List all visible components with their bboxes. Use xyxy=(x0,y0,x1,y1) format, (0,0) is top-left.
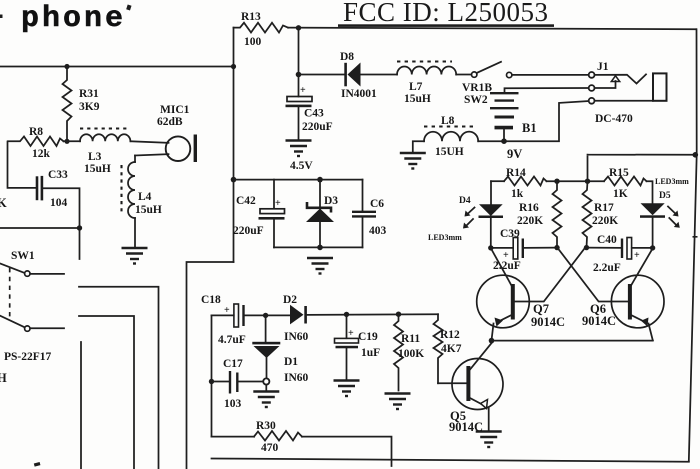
svg-text:LED3mm: LED3mm xyxy=(655,177,689,186)
wire cable bracket 2 xyxy=(79,316,134,469)
LED D4 xyxy=(428,181,503,248)
svg-text:D1: D1 xyxy=(284,356,298,368)
wire emitter bus xyxy=(492,340,653,342)
wire D1 to ground xyxy=(265,385,267,391)
LED D5 xyxy=(640,177,689,248)
svg-text:100: 100 xyxy=(244,36,262,48)
node right rail xyxy=(693,152,699,158)
wire SW2 to J1 xyxy=(512,74,589,76)
capacitor C19 xyxy=(335,314,381,379)
wire L4 to ground xyxy=(134,218,136,247)
stray mark bottom left xyxy=(34,462,41,467)
svg-text:L8: L8 xyxy=(441,115,455,127)
capacitor C33 xyxy=(37,169,68,209)
resistor R11 xyxy=(394,314,424,390)
capacitor C42 xyxy=(233,180,285,248)
svg-text:SW1: SW1 xyxy=(11,250,35,262)
wire D2 output row xyxy=(307,313,438,316)
svg-text:15uH: 15uH xyxy=(135,204,162,216)
svg-text:1K: 1K xyxy=(613,188,628,200)
resistor R8 xyxy=(8,126,64,160)
wire 9V feed right rail to oscillator xyxy=(588,155,697,182)
resistor R15 xyxy=(604,167,653,203)
wire cross coupling to Q6 base xyxy=(558,249,628,302)
svg-text:104: 104 xyxy=(50,197,68,209)
svg-text:VR1B: VR1B xyxy=(462,82,492,94)
node B1 minus xyxy=(501,138,507,144)
diode D8 IN4001 xyxy=(340,51,377,100)
inductor L8 xyxy=(424,115,478,158)
node C17 left junction xyxy=(209,379,214,384)
node C42 box top-left xyxy=(231,177,237,183)
ground below C19 xyxy=(334,381,360,397)
diode D2 IN60 xyxy=(266,294,309,343)
switch SW1 pole 2 xyxy=(0,316,64,385)
svg-text:2.2uF: 2.2uF xyxy=(493,260,521,272)
wire L8 to ground xyxy=(413,141,424,152)
node D1 bottom open circle xyxy=(263,378,269,384)
battery B1 xyxy=(490,93,537,161)
svg-text:IN60: IN60 xyxy=(284,372,309,384)
svg-text:D2: D2 xyxy=(283,294,297,306)
wire lower-left horizontal xyxy=(0,227,80,229)
wire lower block left vertical xyxy=(211,315,213,436)
microphone MIC1 xyxy=(130,104,197,162)
svg-text:15UH: 15UH xyxy=(435,146,464,158)
svg-text:R16: R16 xyxy=(519,202,539,214)
node C42 rail junction xyxy=(231,64,236,69)
node C40 left xyxy=(584,245,589,250)
svg-text:C42: C42 xyxy=(236,195,256,207)
inductor L3 xyxy=(80,129,130,176)
svg-text:9014C: 9014C xyxy=(531,315,565,329)
capacitor C6 xyxy=(352,180,387,248)
svg-text:C33: C33 xyxy=(48,169,68,181)
svg-text:C43: C43 xyxy=(304,108,324,120)
svg-text:470: 470 xyxy=(261,442,279,454)
svg-text:L4: L4 xyxy=(138,191,152,203)
svg-text:R17: R17 xyxy=(594,202,614,214)
svg-text:+: + xyxy=(348,328,354,339)
capacitor C40 xyxy=(587,234,653,274)
wire battery plus to J1 middle xyxy=(505,88,589,92)
svg-text:220uF: 220uF xyxy=(233,225,264,237)
wire C42 box to bottom left vertical xyxy=(187,262,234,469)
wire cable bracket 1 xyxy=(79,287,159,469)
wire R8 left drop xyxy=(8,142,36,188)
wire cross coupling to Q7 base xyxy=(515,249,585,302)
wire C33 to lower bus xyxy=(43,188,79,259)
wire D8 to L7 xyxy=(361,74,398,76)
svg-text:3K9: 3K9 xyxy=(79,101,100,113)
ground below R11 xyxy=(385,394,411,410)
stray mark right rail xyxy=(693,236,698,238)
transistor Q5 9014C xyxy=(449,343,503,435)
wire C43 drop xyxy=(298,28,300,97)
wire right vertical rail xyxy=(689,29,697,461)
switch SW2 VR1B xyxy=(456,62,512,106)
svg-text:L3: L3 xyxy=(88,151,102,163)
svg-text:R30: R30 xyxy=(256,420,276,432)
node C40 right xyxy=(650,245,655,250)
svg-text:H: H xyxy=(0,371,7,385)
svg-text:R11: R11 xyxy=(401,333,420,345)
svg-text:D3: D3 xyxy=(324,195,338,207)
svg-text:SW2: SW2 xyxy=(464,94,488,106)
svg-text:C6: C6 xyxy=(370,198,384,210)
svg-text:R8: R8 xyxy=(29,126,43,138)
title text FCC ID xyxy=(338,0,554,27)
svg-text:C39: C39 xyxy=(500,228,520,240)
resistor R16 xyxy=(517,181,562,247)
svg-text:FCC ID: L250053: FCC ID: L250053 xyxy=(343,0,549,27)
ground below L4 xyxy=(122,248,148,264)
wire B1 minus to L8 and up to J1 sleeve xyxy=(478,101,588,141)
resistor R14 xyxy=(491,167,604,200)
node R13 out xyxy=(296,25,301,30)
capacitor C43 xyxy=(286,85,333,172)
node C18 D1 junction xyxy=(263,313,268,318)
svg-text:L7: L7 xyxy=(409,81,423,93)
svg-text:+: + xyxy=(224,305,230,316)
svg-text:+: + xyxy=(300,85,306,96)
svg-text:100K: 100K xyxy=(398,348,424,360)
svg-text:62dB: 62dB xyxy=(157,116,183,128)
wire cable bracket 3 xyxy=(80,342,82,469)
svg-text:DC-470: DC-470 xyxy=(595,113,633,125)
svg-text:15uH: 15uH xyxy=(84,163,111,175)
resistor R17 xyxy=(583,181,619,247)
node D8 junction xyxy=(296,72,302,78)
node left rail junction xyxy=(64,64,69,69)
node D3 bottom xyxy=(317,245,323,251)
node C39 right xyxy=(554,245,559,250)
resistor R31 xyxy=(63,67,100,142)
svg-text:R12: R12 xyxy=(440,329,460,341)
zener diode D3 xyxy=(306,180,338,248)
svg-text:C17: C17 xyxy=(223,358,243,370)
resistor R13 xyxy=(234,11,289,48)
node R11 top xyxy=(396,312,401,317)
wire R13 leg / C42 feed vertical xyxy=(233,28,235,262)
node emitter bus xyxy=(489,338,495,344)
svg-text:K: K xyxy=(0,196,7,210)
svg-text:R15: R15 xyxy=(609,167,629,179)
switch SW1 linkage dashed xyxy=(9,268,11,318)
capacitor C39 xyxy=(491,228,557,272)
ground below C43 xyxy=(286,141,312,157)
inductor L4 xyxy=(122,156,162,219)
title text "phone" xyxy=(0,2,132,36)
svg-text:LED3mm: LED3mm xyxy=(428,233,462,242)
svg-text:D4: D4 xyxy=(459,196,471,206)
switch SW1 pole 1 xyxy=(0,250,64,276)
svg-text:220K: 220K xyxy=(517,215,543,227)
capacitor C17 xyxy=(212,358,264,410)
resistor R30 xyxy=(212,420,392,466)
svg-text:IN4001: IN4001 xyxy=(341,88,377,100)
svg-text:C18: C18 xyxy=(201,294,221,306)
svg-text:D8: D8 xyxy=(340,51,354,63)
node D3 top xyxy=(317,177,323,183)
ground below Q5 xyxy=(476,432,502,448)
node R31 bottom xyxy=(64,139,69,144)
wire bottom frame xyxy=(212,459,689,462)
svg-text:+: + xyxy=(634,250,640,261)
transistor Q7 9014C xyxy=(477,249,565,341)
svg-text:2.2uF: 2.2uF xyxy=(593,262,621,274)
node lower-left junction xyxy=(77,225,82,230)
svg-text:403: 403 xyxy=(369,225,387,237)
diode D1 IN60 xyxy=(252,315,308,384)
svg-text:phone: phone xyxy=(21,2,126,36)
svg-text:9014C: 9014C xyxy=(582,314,616,328)
wire R12 to Q5 base xyxy=(438,382,467,384)
svg-text:4.5V: 4.5V xyxy=(290,160,313,172)
wire to D8 xyxy=(299,74,345,76)
ground below L8 xyxy=(400,153,426,169)
svg-text:D5: D5 xyxy=(659,191,671,201)
svg-text:R14: R14 xyxy=(506,167,526,179)
capacitor C18 xyxy=(201,294,266,346)
svg-text:C40: C40 xyxy=(597,234,617,246)
resistor R12 xyxy=(434,314,462,383)
svg-text:220K: 220K xyxy=(592,215,618,227)
svg-text:IN60: IN60 xyxy=(284,331,309,343)
svg-text:Q7: Q7 xyxy=(533,302,549,316)
wire R8 to L3 xyxy=(64,140,81,142)
svg-text:15uH: 15uH xyxy=(404,93,431,105)
svg-text:J1: J1 xyxy=(597,61,609,73)
svg-text:+: + xyxy=(275,198,281,209)
svg-text:103: 103 xyxy=(224,398,242,410)
svg-text:1uF: 1uF xyxy=(361,347,380,359)
ground below D3 xyxy=(307,258,333,274)
svg-text:12k: 12k xyxy=(32,148,51,160)
svg-text:4K7: 4K7 xyxy=(441,343,462,355)
svg-text:MIC1: MIC1 xyxy=(160,104,190,116)
node R17 top feed xyxy=(585,179,590,184)
inductor L7 xyxy=(397,62,456,106)
node C19 top xyxy=(344,312,349,317)
svg-text:C19: C19 xyxy=(358,331,378,343)
svg-text:R13: R13 xyxy=(241,11,261,23)
wire C42 box top xyxy=(234,179,363,181)
node R16 top xyxy=(554,179,559,184)
transistor Q6 9014C xyxy=(582,249,664,341)
wire C42 box bottom xyxy=(274,246,363,248)
wire upper-left horizontal xyxy=(0,66,234,68)
svg-text:1k: 1k xyxy=(511,188,524,200)
wire top 9V rail xyxy=(288,28,696,30)
svg-text:R31: R31 xyxy=(79,88,99,100)
ground below D1 xyxy=(253,392,279,408)
node C39 left xyxy=(488,245,493,250)
svg-text:220uF: 220uF xyxy=(302,121,333,133)
svg-text:B1: B1 xyxy=(522,121,537,135)
svg-text:PS-22F17: PS-22F17 xyxy=(4,351,52,363)
svg-text:9V: 9V xyxy=(507,147,522,161)
svg-text:4.7uF: 4.7uF xyxy=(218,334,246,346)
jack J1 xyxy=(589,61,667,125)
